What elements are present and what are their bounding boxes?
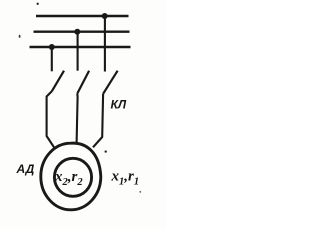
svg-text:x1,r1: x1,r1 bbox=[111, 169, 140, 188]
svg-text:x2,r2: x2,r2 bbox=[54, 169, 83, 188]
svg-text:АД: АД bbox=[16, 162, 35, 176]
svg-text:КЛ: КЛ bbox=[111, 98, 127, 112]
